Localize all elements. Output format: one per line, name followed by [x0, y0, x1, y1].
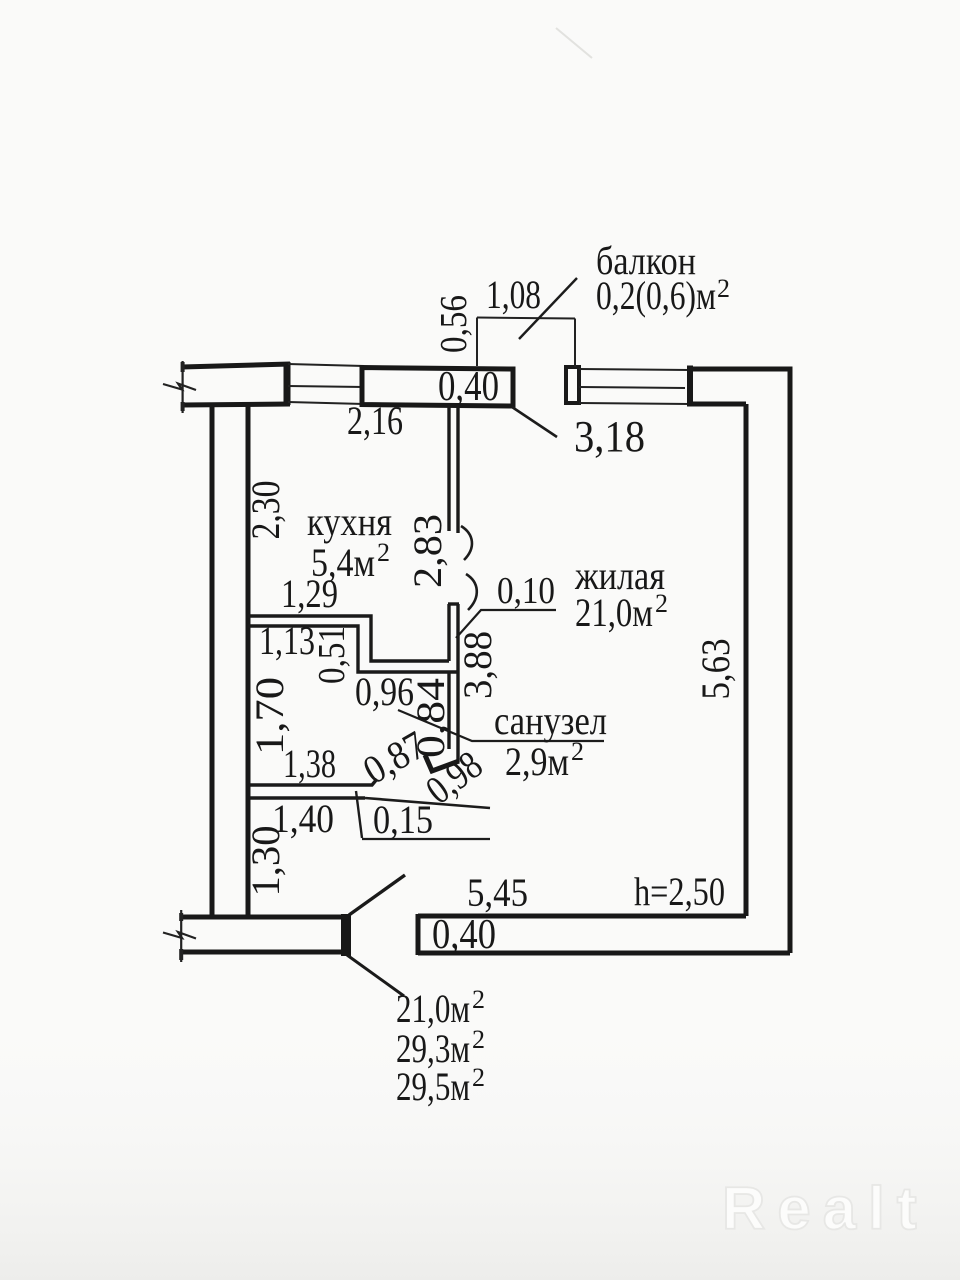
wall box 0,40 top: [362, 368, 513, 407]
svg-text:0,51: 0,51: [311, 626, 353, 684]
leader sanuzel: [398, 710, 604, 741]
balcony outline: [477, 318, 575, 368]
svg-text:2: 2: [571, 737, 584, 766]
svg-text:2,9м: 2,9м: [505, 739, 569, 784]
area total 21,0: [396, 985, 485, 1031]
svg-text:2: 2: [655, 589, 668, 618]
window kitchen (2,16 wall): [288, 364, 364, 404]
leader 3,18: [512, 407, 557, 437]
svg-text:1,08: 1,08: [486, 272, 541, 317]
label sanuzel area: [505, 737, 584, 784]
svg-text:Realt: Realt: [722, 1175, 929, 1242]
leader 0,10: [456, 610, 556, 638]
balcony door jamb: [566, 367, 579, 403]
svg-text:21,0м: 21,0м: [575, 590, 653, 635]
kitchen bottom wall with step: [248, 616, 458, 672]
svg-text:0,96: 0,96: [355, 669, 414, 714]
svg-text:1,30: 1,30: [243, 826, 288, 897]
wall top-left segment: [182, 362, 290, 405]
bottom wall box 0,40: [418, 914, 790, 955]
label balcony area: [596, 273, 730, 318]
hall diagonal wall: [365, 798, 490, 808]
break mark bottom-left: [163, 910, 196, 962]
paper shading lower area: [0, 1000, 960, 1280]
svg-text:0,10: 0,10: [497, 570, 555, 612]
left outer wall: [212, 404, 248, 917]
svg-text:1,29: 1,29: [281, 571, 338, 616]
bathroom door hook wall: [425, 755, 459, 771]
break mark top-left: [163, 361, 196, 413]
label living area: [575, 589, 668, 635]
svg-text:21,0м: 21,0м: [396, 986, 470, 1031]
svg-text:29,5м: 29,5м: [396, 1064, 470, 1109]
svg-text:2: 2: [377, 538, 390, 567]
svg-text:2: 2: [472, 985, 485, 1014]
svg-text:2: 2: [472, 1063, 485, 1092]
wall top-right and right outer: [687, 366, 790, 954]
svg-text:5,45: 5,45: [467, 870, 528, 915]
svg-text:3,88: 3,88: [455, 631, 500, 699]
entry door swing: [349, 875, 405, 915]
bottom wall left part: [181, 917, 345, 952]
svg-text:0,15: 0,15: [373, 797, 433, 842]
svg-text:0,2(0,6)м: 0,2(0,6)м: [596, 273, 716, 318]
entry door post: [341, 914, 351, 956]
svg-text:2: 2: [472, 1025, 485, 1054]
break squiggle partition: [461, 526, 477, 610]
svg-text:1,13: 1,13: [259, 618, 315, 663]
svg-text:0,40: 0,40: [432, 912, 496, 958]
svg-text:3,18: 3,18: [574, 412, 645, 461]
area total 29,3: [396, 1025, 485, 1071]
svg-text:2,16: 2,16: [347, 398, 403, 443]
svg-text:1,38: 1,38: [283, 741, 336, 786]
window living room: [579, 369, 690, 404]
partition kitchen/living lower + bathroom right wall: [448, 604, 459, 762]
partition kitchen/living upper: [449, 405, 458, 533]
svg-text:2,83: 2,83: [405, 514, 450, 588]
leader 0,15: [356, 791, 490, 839]
svg-text:5,63: 5,63: [693, 639, 738, 700]
svg-text:2,30: 2,30: [243, 481, 288, 540]
balcony leader line: [519, 278, 577, 339]
leader to areas: [347, 955, 404, 996]
svg-text:0,56: 0,56: [433, 295, 475, 353]
area total 29,5: [396, 1063, 485, 1109]
scratch mark top: [556, 28, 592, 58]
hall bottom wall: [250, 779, 377, 798]
label kitchen area: [311, 538, 390, 585]
svg-text:санузел: санузел: [494, 698, 607, 743]
svg-text:2: 2: [717, 274, 730, 303]
svg-text:0,40: 0,40: [438, 364, 499, 410]
svg-text:h=2,50: h=2,50: [634, 869, 725, 914]
